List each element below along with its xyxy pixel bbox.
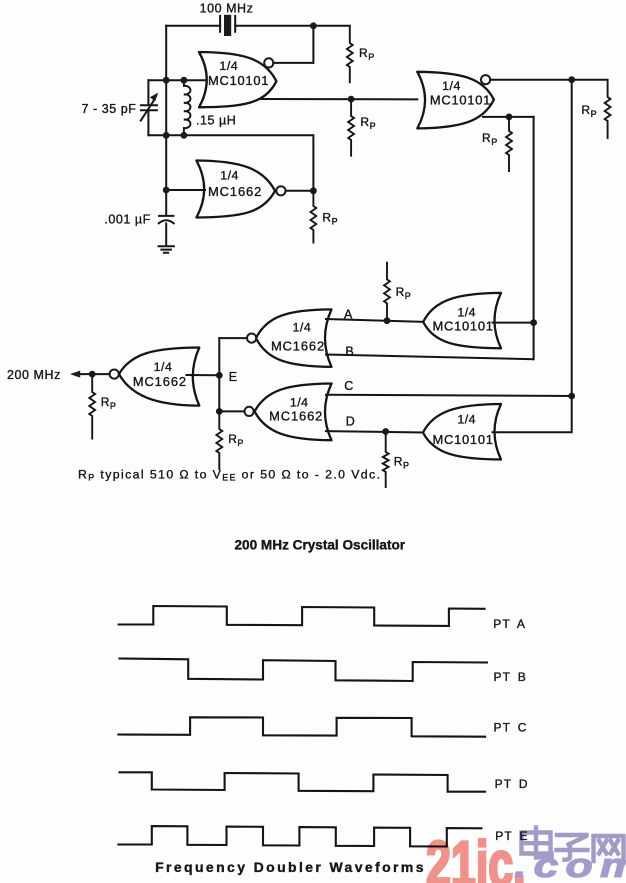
svg-text:Frequency Doubler Waveforms: Frequency Doubler Waveforms: [155, 859, 424, 875]
svg-text:C: C: [344, 379, 354, 393]
inverter bubble U6 output: [245, 407, 254, 416]
resistor R6 Rp (above node A): [384, 262, 390, 321]
waveform PT A: [118, 606, 486, 626]
svg-text:P: P: [332, 217, 338, 227]
node tank bottom left: [163, 132, 170, 139]
op-amp U7 gate 1/4 MC10101 (delay for A, faces left): [423, 293, 501, 348]
svg-text:100 MHz: 100 MHz: [200, 1, 254, 15]
svg-text:R: R: [101, 395, 110, 409]
wire tank top rail: [148, 79, 206, 81]
svg-text:200 MHz: 200 MHz: [7, 368, 61, 382]
svg-text:1/4: 1/4: [219, 59, 238, 73]
resistor R2 Rp (on U1-U2 wire): [348, 99, 354, 157]
svg-text:P: P: [368, 52, 374, 62]
label node E: [229, 370, 238, 384]
node U7 input junction: [530, 319, 537, 326]
wire U3 input from left vertical: [166, 189, 205, 191]
node U2 NOR junction: [568, 76, 575, 83]
label PT B: [494, 670, 527, 684]
svg-text:21ic.: 21ic.: [426, 828, 526, 883]
svg-text:PT B: PT B: [494, 670, 527, 684]
node C junction: [568, 393, 575, 400]
svg-text:A: A: [344, 307, 353, 321]
resistor R9 Rp (below node D): [383, 432, 389, 489]
wire U4 input to node E: [187, 374, 220, 376]
op-amp U8 gate 1/4 MC10101 (delay for D, faces left): [423, 404, 501, 460]
wire U1 NOR output to crystal junction: [273, 28, 313, 63]
svg-text:1/4: 1/4: [457, 305, 476, 319]
waveform PT B: [118, 659, 488, 682]
node U3 input junction: [163, 187, 170, 194]
resistor R8 Rp (below node E): [216, 411, 222, 470]
label .15 uH: [196, 114, 236, 128]
label 200 MHz: [7, 368, 61, 382]
svg-text:1/4: 1/4: [293, 320, 312, 334]
svg-text:MC10101: MC10101: [433, 432, 494, 447]
wire node C (U6 input to NOR phase bus): [326, 395, 572, 396]
label .001 uF: [104, 212, 151, 226]
ground: [159, 246, 174, 253]
inverter bubble U1 NOR output: [264, 58, 273, 67]
node 200 MHz junction: [89, 371, 96, 378]
svg-text:PT A: PT A: [493, 617, 526, 631]
wire node D (U6 input to U8 output): [326, 431, 423, 432]
svg-text:P: P: [591, 109, 597, 119]
label Rp of R7: [101, 395, 116, 411]
resistor R3 Rp (below U3 output): [311, 191, 317, 244]
caption Frequency Doubler Waveforms: [155, 859, 424, 875]
svg-text:MC10101: MC10101: [430, 92, 491, 107]
svg-text:D: D: [346, 414, 356, 428]
svg-text:P: P: [237, 438, 243, 448]
wire U1 OR output to U2 input: [260, 98, 417, 100]
label Rp of R3: [322, 211, 337, 227]
wire OR phase vertical bus: [533, 117, 535, 359]
wire U2 OR output: [483, 116, 534, 118]
label Rp of R1: [359, 46, 374, 62]
inverter bubble U3 output: [276, 186, 285, 195]
label Rp of R4: [581, 103, 596, 119]
watermark 21ic.com (decorative logo): [426, 828, 626, 883]
wire crystal top rail: [166, 25, 350, 27]
label Rp of R9: [394, 455, 409, 471]
label node C: [344, 379, 354, 393]
svg-text:.001 µF: .001 µF: [104, 212, 151, 226]
svg-text:.15 µH: .15 µH: [196, 114, 236, 128]
inverter bubble U2 NOR output: [481, 75, 490, 84]
svg-text:R: R: [359, 46, 368, 60]
svg-text:7 - 35 pF: 7 - 35 pF: [82, 102, 137, 116]
wire U7 input stub to OR bus: [493, 322, 534, 324]
node E junction: [216, 372, 223, 379]
svg-text:RP typical 510 Ω to VEE or 50: RP typical 510 Ω to VEE or 50 Ω to - 2.0…: [78, 467, 381, 482]
svg-text:P: P: [403, 461, 409, 471]
wire U3 output to feedback junction: [286, 190, 314, 192]
wire lower E to U6 bubble: [219, 410, 244, 412]
svg-text:MC1662: MC1662: [269, 408, 323, 423]
svg-text:MC10101: MC10101: [208, 73, 269, 88]
waveform PT D: [118, 772, 486, 791]
resistor R7 Rp (below 200 MHz node): [89, 374, 95, 439]
node lower E junction: [216, 408, 223, 415]
svg-text:P: P: [370, 121, 376, 131]
svg-text:200 MHz Crystal Oscillator: 200 MHz Crystal Oscillator: [235, 538, 406, 553]
wire U2 NOR output rail to right: [490, 79, 608, 81]
svg-text:R: R: [322, 211, 331, 225]
label 100 MHz: [200, 1, 254, 15]
node A junction: [384, 317, 391, 324]
label Rp typical note: [78, 467, 381, 482]
label node D: [346, 414, 356, 428]
inductor L1 .15 uH: [184, 80, 191, 135]
node junction crystal/NOR feedback: [310, 22, 317, 29]
arrow 200 MHz output: [70, 371, 80, 378]
svg-text:B: B: [345, 344, 354, 358]
svg-text:MC10101: MC10101: [433, 319, 494, 334]
wire tank bottom rail to NOR output feedback: [148, 135, 313, 191]
capacitor C1 7-35 pF variable: [141, 80, 159, 135]
label PT C: [494, 721, 528, 735]
resistor R5 Rp (below U2 OR output): [506, 117, 512, 172]
op-amp U1 gate 1/4 MC10101 (oscillator): [199, 52, 276, 107]
svg-text:1/4: 1/4: [442, 79, 461, 93]
label Rp of R2: [360, 115, 375, 131]
wire U8 input stub to NOR bus: [493, 394, 572, 432]
node tank bottom right: [181, 132, 188, 139]
label Rp of R5: [482, 131, 497, 147]
wire node E vertical: [218, 338, 220, 411]
op-amp U2 gate 1/4 MC10101 (buffer): [417, 72, 494, 129]
svg-text:PT D: PT D: [495, 777, 529, 791]
svg-text:R: R: [396, 285, 405, 299]
label PT E: [495, 829, 528, 843]
svg-text:MC1662: MC1662: [271, 338, 325, 353]
svg-text:P: P: [405, 291, 411, 301]
svg-text:R: R: [360, 115, 369, 129]
svg-text:1/4: 1/4: [220, 169, 239, 183]
waveform PT E: [117, 826, 482, 846]
node U2 OR junction: [506, 114, 513, 121]
svg-text:R: R: [394, 455, 403, 469]
svg-text:PT C: PT C: [494, 721, 528, 735]
label node A: [344, 307, 353, 321]
resistor R4 Rp (far right): [605, 80, 611, 139]
svg-text:1/4: 1/4: [154, 360, 173, 374]
label PT A: [493, 617, 526, 631]
wire node B (U5 input to OR phase bus): [326, 355, 534, 360]
svg-text:MC1662: MC1662: [133, 374, 187, 389]
caption 200 MHz Crystal Oscillator: [235, 538, 406, 553]
inverter bubble U4 output: [110, 370, 119, 379]
svg-text:R: R: [482, 131, 491, 145]
svg-text:1/4: 1/4: [457, 412, 476, 426]
svg-text:P: P: [491, 137, 497, 147]
resistor R1 Rp (from crystal rail): [347, 26, 353, 84]
label Rp of R8: [228, 432, 243, 448]
label 7-35 pF: [82, 102, 137, 116]
label Rp of R6: [396, 285, 411, 301]
node junction on U1-U2 wire: [348, 96, 355, 103]
wire U4 output to 200 MHz arrow: [78, 373, 110, 375]
node tank top left: [163, 77, 170, 84]
wire E to U5 bubble: [219, 337, 247, 339]
op-amp U4 gate 1/4 MC1662 (output buffer, faces left): [119, 348, 199, 406]
svg-text:E: E: [229, 370, 238, 384]
op-amp U5 gate 1/4 MC1662 (doubler NOR A,B -> E, faces left): [256, 309, 332, 367]
wire left vertical (crystal to ground branch): [165, 26, 167, 215]
crystal Y1 100 MHz: [220, 15, 235, 36]
inverter bubble U5 output: [247, 334, 256, 343]
wire node A (U5 input to U7 output): [326, 319, 423, 322]
svg-text:R: R: [581, 103, 590, 117]
svg-text:P: P: [110, 401, 116, 411]
svg-text:.com: .com: [514, 847, 626, 883]
wire NOR phase vertical bus: [571, 80, 573, 396]
node U3 output junction: [310, 187, 317, 194]
op-amp U3 gate 1/4 MC1662 (oscillator NOR): [196, 161, 275, 218]
label node B: [345, 344, 354, 358]
label PT D: [495, 777, 529, 791]
node tank top right: [181, 77, 188, 84]
node D junction: [382, 428, 389, 435]
capacitor C2 .001 uF: [159, 216, 174, 245]
svg-text:MC1662: MC1662: [208, 184, 262, 199]
svg-text:R: R: [228, 432, 237, 446]
waveform PT C: [117, 717, 486, 736]
op-amp U6 gate 1/4 MC1662 (doubler NOR C,D -> E, faces left): [255, 384, 332, 441]
